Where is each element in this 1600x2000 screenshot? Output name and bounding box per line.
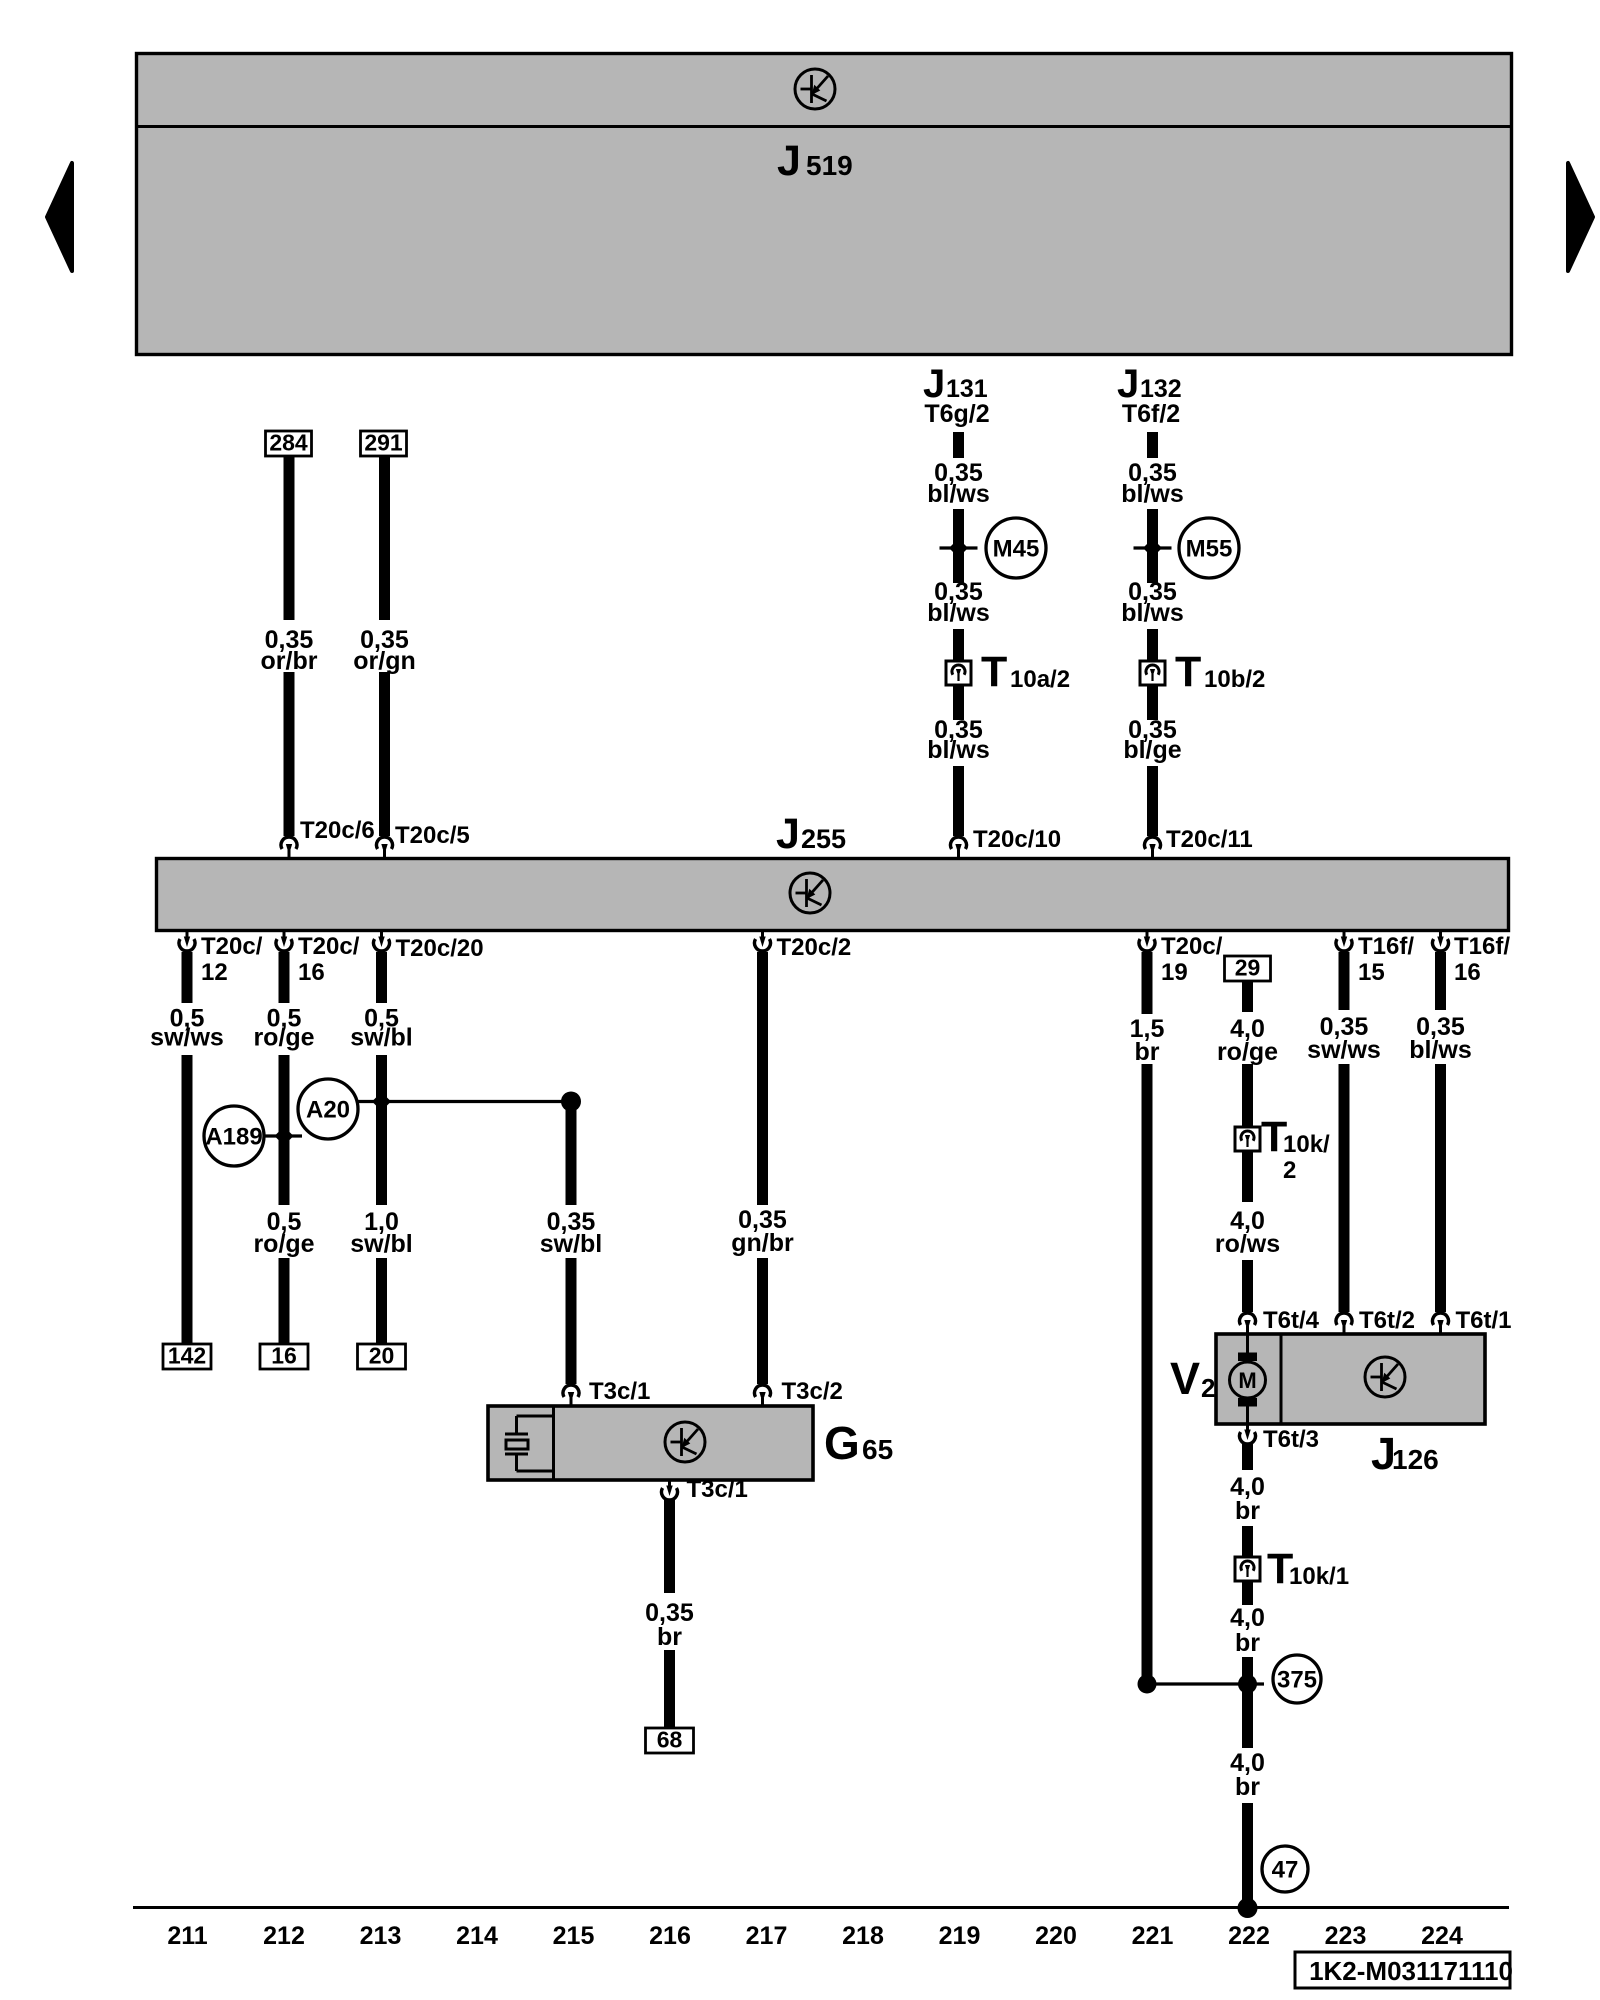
svg-text:16: 16 (298, 959, 325, 986)
svg-text:T: T (1175, 648, 1201, 696)
svg-text:15: 15 (1358, 959, 1385, 986)
svg-text:sw/bl: sw/bl (540, 1230, 603, 1258)
svg-text:br: br (1235, 1629, 1260, 1657)
svg-text:T3c/1: T3c/1 (687, 1476, 748, 1503)
svg-text:2: 2 (1283, 1157, 1296, 1184)
svg-text:ro/ge: ro/ge (1217, 1038, 1278, 1066)
svg-text:T20c/: T20c/ (201, 933, 263, 960)
svg-text:16: 16 (271, 1343, 297, 1369)
svg-text:ro/ge: ro/ge (253, 1024, 314, 1052)
svg-text:T20c/5: T20c/5 (395, 822, 470, 849)
svg-text:T20c/11: T20c/11 (1166, 826, 1253, 853)
svg-text:519: 519 (806, 150, 853, 181)
svg-text:19: 19 (1161, 959, 1188, 986)
svg-text:M55: M55 (1186, 536, 1233, 563)
svg-text:218: 218 (842, 1922, 884, 1950)
svg-text:br: br (1235, 1773, 1260, 1801)
svg-text:T6t/4: T6t/4 (1263, 1307, 1320, 1334)
svg-text:65: 65 (862, 1434, 893, 1465)
svg-text:sw/bl: sw/bl (350, 1230, 413, 1258)
svg-text:or/br: or/br (261, 647, 318, 675)
svg-text:J: J (776, 810, 800, 858)
svg-text:222: 222 (1228, 1922, 1270, 1950)
svg-text:T16f/: T16f/ (1454, 933, 1510, 960)
svg-text:G: G (824, 1417, 860, 1469)
svg-text:4,0: 4,0 (1230, 1604, 1265, 1632)
svg-text:sw/ws: sw/ws (150, 1024, 224, 1052)
svg-text:132: 132 (1140, 375, 1182, 403)
svg-text:bl/ws: bl/ws (927, 480, 990, 508)
svg-text:213: 213 (360, 1922, 402, 1950)
svg-text:bl/ws: bl/ws (1409, 1036, 1472, 1064)
svg-text:219: 219 (939, 1922, 981, 1950)
svg-text:T: T (981, 648, 1007, 696)
svg-text:131: 131 (946, 375, 988, 403)
svg-text:217: 217 (746, 1922, 788, 1950)
svg-text:216: 216 (649, 1922, 691, 1950)
svg-text:223: 223 (1325, 1922, 1367, 1950)
svg-text:T20c/2: T20c/2 (777, 934, 852, 961)
svg-text:sw/bl: sw/bl (350, 1024, 413, 1052)
svg-text:T20c/20: T20c/20 (396, 935, 484, 962)
svg-text:224: 224 (1421, 1922, 1463, 1950)
svg-text:ro/ws: ro/ws (1215, 1230, 1280, 1258)
svg-text:T6t/3: T6t/3 (1263, 1426, 1319, 1453)
svg-text:214: 214 (456, 1922, 498, 1950)
svg-text:126: 126 (1392, 1444, 1439, 1475)
svg-text:bl/ws: bl/ws (927, 736, 990, 764)
svg-text:ro/ge: ro/ge (253, 1230, 314, 1258)
svg-text:10b/2: 10b/2 (1204, 666, 1265, 693)
svg-text:255: 255 (801, 824, 846, 854)
svg-text:T6t/1: T6t/1 (1456, 1307, 1512, 1334)
svg-text:215: 215 (553, 1922, 595, 1950)
svg-text:T20c/6: T20c/6 (300, 817, 375, 844)
svg-text:T6t/2: T6t/2 (1359, 1307, 1415, 1334)
svg-text:bl/ge: bl/ge (1123, 736, 1181, 764)
svg-text:211: 211 (167, 1922, 207, 1950)
svg-text:1K2-M031171110: 1K2-M031171110 (1309, 1956, 1513, 1986)
svg-text:bl/ws: bl/ws (927, 599, 990, 627)
svg-text:bl/ws: bl/ws (1121, 480, 1184, 508)
svg-text:291: 291 (364, 430, 403, 456)
svg-text:V: V (1170, 1353, 1200, 1404)
svg-text:2: 2 (1201, 1373, 1215, 1403)
svg-text:47: 47 (1272, 1857, 1299, 1884)
svg-text:12: 12 (201, 959, 228, 986)
svg-text:220: 220 (1035, 1922, 1077, 1950)
svg-text:A189: A189 (205, 1124, 262, 1151)
svg-text:br: br (1235, 1497, 1260, 1525)
svg-text:J: J (777, 137, 801, 185)
svg-text:gn/br: gn/br (731, 1229, 794, 1257)
svg-text:68: 68 (657, 1727, 683, 1753)
svg-text:10k/: 10k/ (1283, 1131, 1330, 1158)
svg-text:16: 16 (1454, 959, 1481, 986)
svg-text:M45: M45 (993, 536, 1040, 563)
svg-text:284: 284 (269, 430, 308, 456)
svg-text:T6g/2: T6g/2 (924, 400, 989, 428)
svg-text:375: 375 (1277, 1667, 1317, 1694)
svg-text:A20: A20 (306, 1097, 350, 1124)
svg-text:T3c/2: T3c/2 (782, 1378, 843, 1405)
svg-text:29: 29 (1235, 955, 1261, 981)
svg-text:10k/1: 10k/1 (1289, 1563, 1349, 1590)
svg-text:T6f/2: T6f/2 (1122, 400, 1180, 428)
svg-text:221: 221 (1132, 1922, 1174, 1950)
svg-text:bl/ws: bl/ws (1121, 599, 1184, 627)
svg-text:20: 20 (369, 1343, 395, 1369)
svg-text:T20c/: T20c/ (298, 933, 360, 960)
svg-text:br: br (1135, 1038, 1160, 1066)
svg-text:T16f/: T16f/ (1358, 933, 1414, 960)
svg-text:142: 142 (168, 1343, 206, 1369)
svg-text:10a/2: 10a/2 (1010, 666, 1070, 693)
svg-text:T3c/1: T3c/1 (589, 1378, 650, 1405)
svg-text:T20c/10: T20c/10 (973, 826, 1061, 853)
svg-text:212: 212 (263, 1922, 305, 1950)
svg-text:T20c/: T20c/ (1161, 933, 1223, 960)
svg-text:or/gn: or/gn (353, 647, 416, 675)
svg-text:sw/ws: sw/ws (1307, 1036, 1381, 1064)
svg-text:br: br (657, 1623, 682, 1651)
svg-text:M: M (1238, 1368, 1256, 1393)
